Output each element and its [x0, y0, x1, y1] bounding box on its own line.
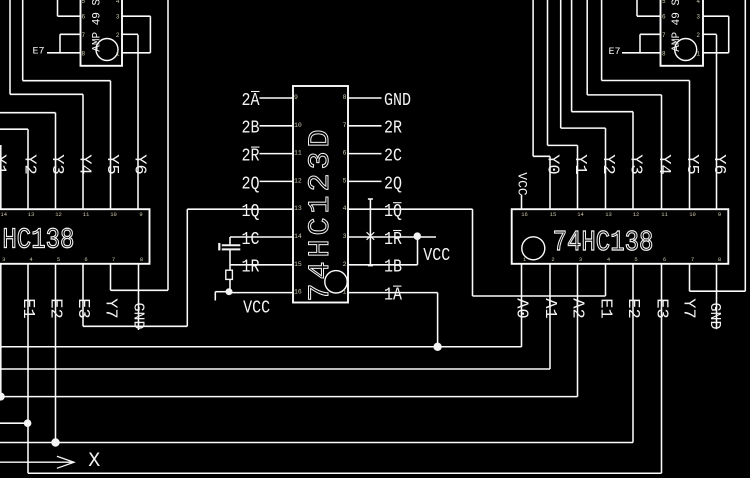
wire amp1 pin7: [60, 33, 81, 35]
wire Y1 up: [547, 0, 549, 145]
svg-text:Y3: Y3: [47, 154, 66, 174]
svg-text:HC138: HC138: [2, 224, 74, 256]
wire A2 line: [1, 396, 578, 398]
svg-text:12: 12: [633, 211, 640, 218]
svg-text:GND: GND: [130, 302, 147, 329]
wire amp2 pin6: [637, 15, 661, 17]
wire E3 drop: [661, 264, 663, 473]
svg-text:E2: E2: [46, 298, 65, 318]
overline 2R: [251, 146, 260, 148]
wire cap to resistor: [229, 249, 231, 270]
IC U5 circle: [522, 237, 545, 260]
x-axis arrowhead: [57, 456, 74, 468]
wire 1B riser: [417, 236, 419, 265]
svg-text:8: 8: [140, 256, 143, 263]
wire A0 line: [0, 346, 522, 348]
svg-text:1B: 1B: [384, 257, 402, 278]
svg-text:GND: GND: [384, 91, 411, 112]
svg-text:VCC: VCC: [423, 246, 450, 267]
op-amp U4 AMP49S5 body: [661, 0, 704, 66]
svg-text:12: 12: [55, 211, 62, 218]
wire pin6 stub: [348, 153, 382, 155]
svg-text:2R: 2R: [384, 118, 402, 139]
svg-text:AMP 49 S5: AMP 49 S5: [671, 0, 683, 52]
svg-text:VCC: VCC: [243, 298, 270, 319]
svg-text:AMP 49 S5: AMP 49 S5: [92, 0, 104, 52]
wire resistor to junction: [229, 279, 231, 291]
svg-text:2C: 2C: [384, 146, 402, 167]
svg-text:Y1: Y1: [0, 154, 9, 174]
overline 1A: [393, 285, 402, 287]
IC U5 74HC138 right body: [512, 209, 729, 264]
wire cap top lead: [229, 237, 231, 245]
svg-text:2Q: 2Q: [384, 174, 402, 195]
IC U1 circle: [325, 271, 347, 293]
wire pin4 1Q-: [348, 208, 473, 210]
svg-text:13: 13: [605, 211, 612, 218]
wire tick top: [368, 198, 373, 200]
wire Y1 riser: [577, 145, 579, 209]
svg-text:8: 8: [82, 50, 86, 57]
wire E1-left drop: [27, 264, 29, 473]
wire 1A- drop: [437, 293, 439, 347]
wire Y4 jog: [587, 94, 661, 96]
wire A1 drop: [549, 264, 551, 369]
svg-text:Y1: Y1: [570, 154, 589, 174]
svg-text:4: 4: [343, 205, 347, 212]
svg-text:Y2: Y2: [20, 154, 39, 174]
svg-text:15: 15: [294, 261, 302, 268]
wire A0 drop: [521, 264, 523, 347]
wire pin16 VCC: [229, 292, 293, 294]
wire A2-left drop: [0, 264, 2, 397]
svg-text:Y4: Y4: [75, 154, 94, 174]
wire Y7-left drop: [110, 264, 112, 291]
wire Y2 to edge: [0, 128, 28, 130]
svg-text:7: 7: [662, 32, 666, 39]
wire pin11 stub: [260, 153, 294, 155]
svg-text:16: 16: [294, 289, 302, 296]
svg-text:9: 9: [139, 211, 142, 218]
svg-text:2: 2: [343, 261, 347, 268]
wire amp1 pin6: [58, 15, 81, 17]
wire amp1 pin3: [122, 15, 150, 17]
wire VCC stub horiz: [215, 291, 229, 293]
svg-text:5: 5: [82, 0, 86, 5]
wire Y7-right up: [744, 0, 746, 291]
svg-text:1R: 1R: [384, 230, 402, 251]
svg-text:15: 15: [550, 211, 557, 218]
wire pin5 stub: [348, 180, 382, 182]
wire A2 drop: [577, 264, 579, 397]
svg-text:10: 10: [689, 211, 696, 218]
wire amp2 pin7: [640, 33, 661, 35]
resistor R1: [226, 270, 233, 279]
svg-text:14: 14: [577, 211, 584, 218]
wire amp1 pin6 up: [57, 0, 59, 16]
wire Y4 up: [586, 0, 588, 95]
wire pin12 stub: [260, 180, 294, 182]
wire amp1 pin2: [122, 33, 138, 35]
svg-text:X: X: [88, 450, 100, 473]
wire amp2 pin3-1: [728, 16, 730, 53]
wire E2-left drop: [55, 264, 57, 443]
svg-text:1Q: 1Q: [241, 202, 259, 223]
svg-text:Y3: Y3: [626, 154, 645, 174]
svg-text:Y5: Y5: [102, 154, 121, 174]
wire pin1 1A-: [348, 292, 438, 294]
wire x-axis: [0, 461, 73, 463]
wire Y7-left jog: [111, 289, 169, 291]
wire Y5 jog: [602, 80, 690, 82]
wire amp1 pin8: [47, 52, 81, 54]
wire Y7-left up: [167, 0, 169, 290]
junction 1A-A0: [433, 343, 441, 351]
wire amp2 pin2: [703, 33, 717, 35]
wire Y2 jog: [561, 127, 606, 129]
wire Y4 riser: [661, 95, 663, 209]
svg-text:6: 6: [82, 14, 86, 21]
wire amp1 pin1: [122, 52, 150, 54]
wire Y2 up: [560, 0, 562, 128]
wire pin10 stub: [260, 125, 294, 127]
svg-text:A0: A0: [512, 298, 531, 318]
svg-text:1A: 1A: [384, 285, 403, 306]
svg-text:5: 5: [662, 0, 666, 5]
wire amp1 pin3-1: [149, 16, 151, 53]
IC U2 74HC138 left body: [0, 209, 150, 264]
junction A2 edge: [0, 393, 5, 401]
svg-text:E3: E3: [73, 298, 92, 318]
overline 2A: [251, 91, 260, 93]
wire E2 line: [0, 442, 633, 444]
wire E1 horizontal: [473, 295, 606, 297]
wire Y3 up: [571, 0, 573, 112]
junction E1 stub: [24, 419, 32, 427]
svg-text:10: 10: [294, 122, 302, 129]
wire pin9 stub: [260, 97, 294, 99]
svg-text:E3: E3: [652, 298, 671, 318]
svg-text:1C: 1C: [241, 230, 259, 251]
svg-text:Y2: Y2: [598, 154, 617, 174]
wire Y2 riser: [605, 128, 607, 209]
svg-text:9: 9: [718, 211, 721, 218]
svg-text:E6: E6: [610, 0, 622, 4]
svg-text:GND: GND: [706, 302, 723, 329]
wire Y0 riser: [549, 156, 551, 209]
svg-text:14: 14: [294, 233, 302, 240]
wire amp2 pin7 jog: [639, 34, 641, 53]
svg-text:Y4: Y4: [654, 154, 673, 174]
junction VCC left: [226, 288, 233, 295]
wire Y5 riser: [689, 81, 691, 210]
wire pin7 stub: [348, 125, 382, 127]
svg-text:7: 7: [343, 122, 347, 129]
svg-text:7: 7: [82, 32, 86, 39]
svg-text:Y6: Y6: [130, 154, 149, 174]
svg-text:2: 2: [696, 32, 700, 39]
wire Y4 riser: [82, 94, 84, 209]
svg-text:9: 9: [294, 94, 298, 101]
svg-text:E7: E7: [608, 47, 620, 58]
wire Y3 riser: [55, 113, 57, 210]
op-amp U4 circle: [675, 39, 697, 61]
svg-text:11: 11: [83, 211, 90, 218]
wire pin14 1C: [230, 236, 293, 238]
wire amp2 pin6 up: [636, 0, 638, 16]
wire E3 riser: [186, 209, 188, 326]
svg-text:2A: 2A: [241, 91, 260, 112]
wire GND-left drop: [138, 264, 140, 330]
wire pin8 stub: [348, 97, 382, 99]
wire Y6 riser to amp pin2: [137, 35, 139, 210]
svg-text:10: 10: [110, 211, 117, 218]
svg-text:5: 5: [343, 177, 347, 184]
svg-text:12: 12: [294, 177, 302, 184]
svg-text:5: 5: [57, 256, 60, 263]
svg-text:3: 3: [579, 256, 582, 263]
svg-text:74HC138: 74HC138: [553, 226, 654, 258]
capacitor C1 plate top: [222, 244, 241, 246]
wire amp2 pin8: [622, 52, 661, 54]
svg-text:8: 8: [662, 50, 666, 57]
svg-text:74HC123D: 74HC123D: [304, 125, 338, 301]
junction 1R-VCC: [414, 232, 422, 240]
svg-text:4: 4: [696, 0, 700, 5]
wire E3 line: [28, 472, 662, 474]
wire Y7-right jog: [690, 290, 746, 292]
wire Y5 up: [22, 0, 24, 81]
wire Y0 up: [532, 0, 534, 156]
capacitor C1 polarity bar: [218, 243, 220, 250]
svg-text:6: 6: [662, 14, 666, 21]
svg-text:2Q: 2Q: [241, 174, 259, 195]
svg-text:3: 3: [343, 233, 347, 240]
svg-text:Y6: Y6: [709, 154, 728, 174]
svg-text:Y5: Y5: [682, 154, 701, 174]
wire tick bottom: [368, 265, 373, 267]
wire pin13 1Q: [187, 208, 293, 210]
wire E2 drop: [632, 264, 634, 443]
svg-text:8: 8: [343, 94, 347, 101]
svg-text:A1: A1: [540, 298, 559, 318]
svg-text:1: 1: [343, 289, 347, 296]
svg-text:5: 5: [634, 256, 637, 263]
svg-text:1: 1: [696, 50, 700, 57]
op-amp U3 circle: [96, 39, 118, 61]
wire pin3 1R-: [348, 236, 436, 238]
wire Y6 riser to amp pin2: [716, 35, 718, 210]
op-amp U3 AMP49S5 body: [81, 0, 123, 66]
svg-text:1: 1: [116, 50, 120, 57]
svg-text:2R: 2R: [241, 146, 259, 167]
svg-text:2: 2: [551, 256, 554, 263]
svg-text:E7: E7: [32, 47, 44, 58]
svg-text:16: 16: [521, 211, 528, 218]
svg-text:13: 13: [294, 205, 302, 212]
svg-text:3: 3: [2, 256, 5, 263]
wire Y7-right drop: [689, 264, 691, 291]
svg-text:VCC: VCC: [514, 172, 529, 196]
svg-text:7: 7: [691, 256, 694, 263]
wire Y5 riser: [110, 81, 112, 210]
wire A1 line: [0, 368, 550, 370]
svg-text:E6: E6: [34, 0, 46, 4]
svg-text:E1: E1: [18, 298, 37, 318]
svg-text:6: 6: [343, 150, 347, 157]
svg-text:1R: 1R: [241, 257, 259, 278]
no-ERC marker: [367, 232, 375, 240]
wire VCC stub: [521, 195, 523, 210]
svg-text:3: 3: [116, 14, 120, 21]
svg-text:2: 2: [116, 32, 120, 39]
wire GND-right drop: [716, 264, 718, 329]
svg-text:Y7: Y7: [101, 298, 120, 318]
overline 1Q: [393, 202, 402, 204]
svg-text:Y7: Y7: [679, 298, 698, 318]
svg-text:4: 4: [116, 0, 120, 5]
wire 1Q- riser down: [472, 209, 474, 296]
wire Y3 jog: [572, 111, 633, 113]
wire Y2 riser: [27, 129, 29, 209]
junction E2: [51, 438, 59, 446]
wire E1 right-138 pin drop: [605, 264, 607, 296]
svg-text:A2: A2: [568, 298, 587, 318]
wire pin2 1B: [348, 264, 418, 266]
wire pin15 1R: [230, 264, 293, 266]
svg-text:11: 11: [294, 150, 302, 157]
wire Y1 left: [0, 145, 2, 209]
wire Y3 to edge: [0, 112, 56, 114]
wire E3 left-138 pin drop: [82, 264, 84, 327]
svg-text:2B: 2B: [241, 118, 259, 139]
wire VCC stub drop: [214, 292, 216, 301]
svg-text:7: 7: [112, 256, 115, 263]
svg-text:Y0: Y0: [543, 154, 562, 174]
wire Y4 up: [9, 0, 11, 94]
wire Y0 jog: [533, 155, 550, 157]
wire Y3 riser: [632, 112, 634, 210]
wire Y1 jog: [548, 144, 578, 146]
wire amp2 pin1: [703, 52, 729, 54]
IC U1 74HC123D body: [293, 86, 348, 303]
svg-text:3: 3: [696, 14, 700, 21]
svg-text:13: 13: [28, 211, 35, 218]
overline 1R: [393, 230, 402, 232]
wire Y5 up: [601, 0, 603, 81]
wire amp2 pin3: [703, 15, 729, 17]
svg-text:E1: E1: [596, 298, 615, 318]
svg-text:E2: E2: [623, 298, 642, 318]
svg-text:1Q: 1Q: [384, 202, 402, 223]
svg-text:6: 6: [663, 256, 666, 263]
svg-text:11: 11: [661, 211, 668, 218]
svg-text:8: 8: [718, 256, 721, 263]
capacitor C1 plate bottom: [222, 248, 241, 250]
wire amp1 pin7 jog: [59, 34, 61, 53]
wire E3 horizontal: [83, 325, 187, 327]
wire pin4-pin2 vertical: [369, 199, 371, 266]
svg-text:6: 6: [84, 256, 87, 263]
wire Y4 jog: [10, 93, 83, 95]
wire Y5 jog: [23, 80, 111, 82]
svg-text:14: 14: [0, 211, 7, 218]
wire E1 stub to edge: [0, 422, 28, 424]
